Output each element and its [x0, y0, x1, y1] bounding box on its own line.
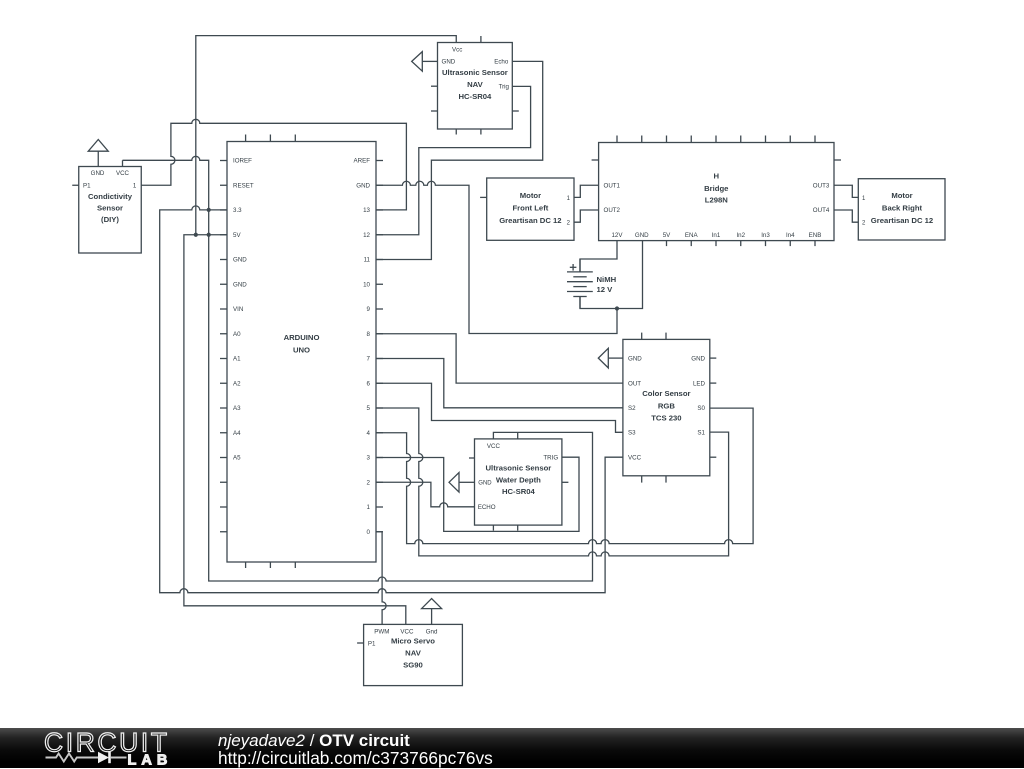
wire arduino 0 to servo PWM — [376, 532, 386, 625]
wire 3.3 rail to color sensor VCC — [160, 206, 623, 593]
conductivity labels — [83, 170, 137, 224]
svg-text:TRIG: TRIG — [543, 454, 558, 461]
junction dots — [194, 208, 619, 311]
micro servo NAV SG90 box — [357, 624, 462, 685]
svg-text:TCS 230: TCS 230 — [651, 413, 681, 422]
svg-text:Greartisan DC 12: Greartisan DC 12 — [499, 216, 561, 225]
svg-text:RGB: RGB — [658, 401, 676, 410]
wire H bridge 12V to battery + — [580, 241, 617, 272]
svg-text:12V: 12V — [611, 232, 623, 239]
wire battery - to H bridge GND — [580, 241, 643, 309]
wire arduino 6 to color S3 — [376, 383, 623, 432]
svg-text:Front Left: Front Left — [512, 203, 548, 212]
svg-text:7: 7 — [367, 356, 371, 363]
svg-text:PWM: PWM — [374, 628, 389, 635]
svg-text:0: 0 — [367, 529, 371, 536]
svg-text:Condictivity: Condictivity — [88, 192, 133, 201]
ground flag (water GND) — [449, 473, 475, 493]
ultrasonic sensor NAV HC-SR04 box — [431, 36, 519, 135]
svg-text:Motor: Motor — [520, 191, 541, 200]
svg-text:LAB: LAB — [128, 752, 173, 768]
svg-text:(DIY): (DIY) — [101, 215, 119, 224]
svg-text:12 V: 12 V — [597, 285, 614, 294]
svg-text:Greartisan DC 12: Greartisan DC 12 — [871, 216, 933, 225]
wire OUT3 to motor back right 1 — [834, 185, 858, 197]
svg-text:A1: A1 — [233, 356, 241, 363]
svg-text:NAV: NAV — [405, 649, 422, 658]
svg-text:A3: A3 — [233, 405, 241, 412]
wire 5V to NAV Vcc — [196, 36, 456, 235]
arduino UNO U1 box — [227, 135, 376, 569]
motor back right labels — [862, 191, 933, 227]
svg-text:OUT1: OUT1 — [604, 183, 621, 190]
svg-text:In3: In3 — [761, 232, 770, 239]
svg-text:OUT: OUT — [628, 380, 641, 387]
H bridge labels — [604, 172, 830, 239]
wire conductivity 1 to arduino 13 — [141, 119, 406, 210]
svg-text:Trig: Trig — [499, 84, 510, 91]
svg-text:S3: S3 — [628, 430, 636, 437]
svg-text:Ultrasonic Sensor: Ultrasonic Sensor — [486, 464, 552, 473]
svg-text:GND: GND — [233, 281, 247, 288]
wire arduino 2 to water ECHO — [376, 482, 475, 507]
svg-text:A2: A2 — [233, 380, 241, 387]
svg-text:6: 6 — [367, 380, 371, 387]
svg-text:GND: GND — [635, 232, 649, 239]
svg-text:ECHO: ECHO — [478, 504, 496, 511]
wire arduino GND to battery junction — [376, 181, 617, 333]
motor back right box — [858, 179, 945, 240]
svg-text:UNO: UNO — [293, 346, 310, 355]
svg-text:Color Sensor: Color Sensor — [642, 389, 690, 398]
svg-text:10: 10 — [363, 281, 370, 288]
wire arduino 7 to color S2 — [376, 359, 623, 408]
svg-text:GND: GND — [628, 355, 642, 362]
battery labels — [597, 275, 617, 294]
ultrasonic NAV labels — [442, 46, 510, 101]
arduino pin labels — [233, 158, 371, 536]
svg-text:Sensor: Sensor — [97, 203, 123, 212]
color sensor RGB TCS 230 box — [623, 333, 716, 483]
ground flag (color sensor GND) — [598, 348, 623, 368]
svg-text:5V: 5V — [663, 232, 671, 239]
svg-text:VCC: VCC — [487, 443, 501, 450]
svg-text:AREF: AREF — [353, 158, 370, 165]
arduino right pins — [376, 161, 383, 532]
svg-text:Water Depth: Water Depth — [496, 475, 541, 484]
svg-text:L298N: L298N — [705, 196, 729, 205]
motor front left labels — [499, 191, 570, 227]
svg-text:GND: GND — [442, 59, 456, 66]
svg-text:A4: A4 — [233, 430, 241, 437]
arduino left pins — [220, 161, 227, 532]
svg-text:VCC: VCC — [628, 454, 642, 461]
svg-text:4: 4 — [367, 430, 371, 437]
wire VCC rail to water sensor VCC — [123, 156, 593, 581]
svg-text:Back Right: Back Right — [882, 203, 923, 212]
svg-text:ENA: ENA — [685, 232, 699, 239]
svg-text:S2: S2 — [628, 405, 636, 412]
svg-text:S1: S1 — [697, 430, 705, 437]
svg-text:In2: In2 — [736, 232, 745, 239]
svg-text:VCC: VCC — [400, 628, 414, 635]
svg-text:Gnd: Gnd — [426, 628, 438, 635]
svg-text:VCC: VCC — [116, 170, 130, 177]
svg-text:LED: LED — [693, 380, 706, 387]
wire arduino 8 to color OUT — [376, 334, 623, 383]
svg-text:RESET: RESET — [233, 182, 254, 189]
svg-text:IOREF: IOREF — [233, 158, 252, 165]
svg-text:OUT3: OUT3 — [813, 183, 830, 190]
svg-text:Echo: Echo — [494, 59, 509, 66]
wire arduino 3 to water TRIG — [376, 457, 579, 531]
svg-text:Bridge: Bridge — [704, 184, 729, 193]
svg-text:GND: GND — [91, 170, 105, 177]
ground flag (conductivity GND) — [88, 140, 108, 167]
water sensor labels — [478, 443, 559, 511]
svg-text:ENB: ENB — [809, 232, 822, 239]
svg-text:GND: GND — [691, 355, 705, 362]
svg-text:P1: P1 — [83, 183, 91, 190]
svg-text:A0: A0 — [233, 331, 241, 338]
svg-text:GND: GND — [356, 182, 370, 189]
svg-text:GND: GND — [233, 257, 247, 264]
svg-text:5: 5 — [367, 405, 371, 412]
svg-text:NiMH: NiMH — [597, 275, 617, 284]
motor front left box — [480, 178, 574, 240]
svg-text:H: H — [714, 172, 720, 181]
wire NAV Echo to arduino 11 — [376, 61, 543, 259]
arduino title — [284, 333, 320, 354]
svg-text:A5: A5 — [233, 455, 241, 462]
wire NAV Trig to arduino 12 — [376, 86, 531, 234]
wire 5V rail to servo VCC — [184, 235, 406, 625]
svg-text:5V: 5V — [233, 232, 241, 239]
svg-text:12: 12 — [363, 232, 370, 239]
svg-text:2: 2 — [367, 479, 371, 486]
H bridge L298N box — [592, 136, 841, 247]
svg-text:NAV: NAV — [467, 80, 484, 89]
circuitlab logo — [0, 728, 210, 768]
svg-text:Motor: Motor — [891, 191, 912, 200]
ground flag (servo Gnd) — [422, 599, 442, 625]
wire arduino 4 to color S0 — [376, 408, 753, 543]
svg-text:Ultrasonic Sensor: Ultrasonic Sensor — [442, 68, 508, 77]
ground flag (NAV GND) — [412, 52, 438, 72]
svg-text:VIN: VIN — [233, 306, 243, 313]
svg-text:1: 1 — [367, 504, 371, 511]
color sensor labels — [628, 355, 706, 461]
svg-text:P1: P1 — [368, 640, 376, 647]
conductivity sensor (DIY) box — [72, 160, 141, 253]
svg-text:11: 11 — [364, 257, 371, 264]
svg-text:S0: S0 — [697, 405, 705, 412]
wire OUT4 to motor back right 2 — [834, 210, 858, 222]
svg-text:1: 1 — [133, 183, 137, 190]
svg-text:Micro Servo: Micro Servo — [391, 636, 435, 645]
battery NiMH 12V — [567, 259, 593, 309]
svg-text:13: 13 — [363, 207, 370, 214]
svg-text:OUT4: OUT4 — [813, 207, 830, 214]
wire arduino 5 to color S1 — [376, 408, 729, 556]
svg-text:In1: In1 — [712, 232, 721, 239]
footer bar — [0, 728, 1024, 768]
svg-text:HC-SR04: HC-SR04 — [458, 92, 492, 101]
svg-text:3.3: 3.3 — [233, 207, 242, 214]
svg-text:8: 8 — [367, 331, 371, 338]
svg-text:OUT2: OUT2 — [604, 207, 621, 214]
svg-text:HC-SR04: HC-SR04 — [502, 487, 536, 496]
wire OUT2 to motor front left 2 — [574, 210, 599, 222]
svg-text:In4: In4 — [786, 232, 795, 239]
servo labels — [368, 628, 438, 669]
wire OUT1 to motor front left 1 — [574, 185, 599, 197]
svg-text:GND: GND — [478, 481, 492, 487]
svg-text:ARDUINO: ARDUINO — [284, 333, 320, 342]
ultrasonic sensor water depth HC-SR04 box — [469, 433, 568, 531]
svg-text:3: 3 — [367, 455, 371, 462]
svg-text:Vcc: Vcc — [452, 46, 462, 53]
svg-text:SG90: SG90 — [403, 660, 423, 669]
svg-text:9: 9 — [367, 306, 371, 313]
